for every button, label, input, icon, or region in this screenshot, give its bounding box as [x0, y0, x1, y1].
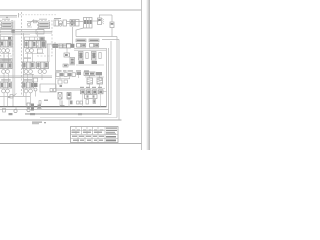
wire long top bus 2	[0, 16, 17, 18]
bus y120	[0, 119, 122, 121]
wire vertical x13	[12, 21, 14, 107]
wire vertical dashed x21.5	[21, 12, 23, 96]
cluster E1	[77, 44, 89, 65]
bus heavy bottom y106.7	[0, 106, 107, 108]
wire mid bus row1 c	[0, 32, 52, 34]
valve cluster B2	[23, 62, 36, 75]
stripes Is	[25, 82, 34, 88]
wire vertical x106.5	[106, 48, 108, 107]
angled mark	[13, 94, 17, 97]
E wires across	[74, 48, 106, 50]
tick x18.5	[18, 13, 20, 18]
check valve icon mid	[27, 20, 38, 28]
wire mid bus row1 a	[0, 29, 44, 31]
wire row3	[0, 96, 30, 98]
stripes Hs	[2, 82, 11, 88]
wire mid bus row1 d short	[0, 34, 30, 36]
E2 label	[89, 39, 99, 42]
label text above box C	[39, 19, 47, 20]
wire y88.5	[55, 88, 105, 90]
relief valve top right	[98, 15, 115, 37]
valve cluster A2	[0, 63, 12, 74]
stripes A1s	[2, 41, 11, 47]
cluster E2	[90, 44, 102, 65]
bus y114.7	[25, 114, 111, 116]
connector stubs between rows	[4, 52, 42, 82]
pump group top	[54, 20, 83, 27]
bus y109.5	[0, 109, 109, 111]
bottom pump row	[3, 101, 83, 116]
wire vertical x111	[110, 41, 112, 115]
small block on bus row1	[36, 30, 44, 35]
legend empty box	[40, 84, 56, 92]
valve cluster B1 wide	[25, 37, 47, 54]
label box A	[2, 22, 13, 29]
note text bottom left	[32, 122, 42, 123]
border frame top	[0, 9, 142, 11]
band F boxes	[56, 72, 102, 76]
wire vertical x23.5	[23, 33, 25, 96]
small box above F band	[63, 64, 68, 67]
wire mid bus row1 b	[0, 31, 52, 33]
title block	[71, 127, 119, 143]
wire L-shape pump return	[47, 27, 73, 44]
row2 label B2	[24, 58, 31, 59]
wire vertical x117	[116, 37, 118, 118]
stripes C2s	[39, 62, 48, 68]
block D wire row	[52, 42, 74, 48]
E1 label	[76, 39, 86, 42]
border frame right	[141, 0, 143, 150]
wire vertical x108.5	[108, 48, 110, 113]
valve cluster C2	[37, 62, 49, 73]
border frame bottom	[0, 143, 142, 145]
band F to G stubs	[60, 75, 100, 79]
wire mid bus row2 a	[0, 75, 52, 77]
junction blob x13	[12, 29, 15, 32]
block D lower parts	[64, 49, 75, 66]
row3 down stubs	[4, 93, 31, 107]
wire vertical x14.8	[14, 21, 16, 97]
band F labels	[56, 70, 89, 71]
valve bank top mid	[76, 18, 99, 37]
dashed enclosure column A	[1, 21, 14, 57]
wire vertical x55.5	[55, 44, 57, 88]
bus y113.4	[25, 112, 109, 114]
narrow column component x33-38	[34, 78, 38, 82]
stripes B1s	[27, 41, 46, 48]
bus y117.5 partial	[40, 117, 117, 119]
wire mid bus row2 b	[0, 77, 52, 79]
small box pair left of J	[50, 89, 53, 92]
cluster H row3 left	[0, 79, 12, 93]
cluster I row3	[23, 79, 34, 93]
wire top connector y36.5	[76, 36, 117, 38]
valve cluster A1	[0, 37, 12, 54]
label text above box A	[2, 19, 10, 20]
small parts above heavy bus	[39, 100, 83, 105]
small dark mark bottom left	[8, 96, 10, 98]
small rect mid1	[10, 95, 13, 99]
dashed pilot line y14.8	[20, 14, 57, 16]
cluster J	[55, 90, 80, 107]
wire top connector y39.5	[102, 39, 119, 41]
wire vertical pair x47.5 x49	[47, 44, 49, 62]
wire vertical x119	[118, 40, 120, 121]
sub parts left of G	[56, 79, 70, 87]
dashed enclosure column C	[38, 21, 53, 57]
title text marks	[72, 129, 75, 130]
cluster G	[85, 77, 104, 89]
label box C	[39, 22, 50, 29]
pump label text	[54, 18, 61, 19]
small component near x100 y77-83	[99, 78, 102, 81]
stripes B2s	[25, 62, 34, 68]
stripes A2s	[2, 63, 11, 69]
cluster K tank filter	[80, 87, 107, 107]
row2 label A2	[1, 59, 13, 62]
wire long top bus 1	[0, 15, 17, 17]
